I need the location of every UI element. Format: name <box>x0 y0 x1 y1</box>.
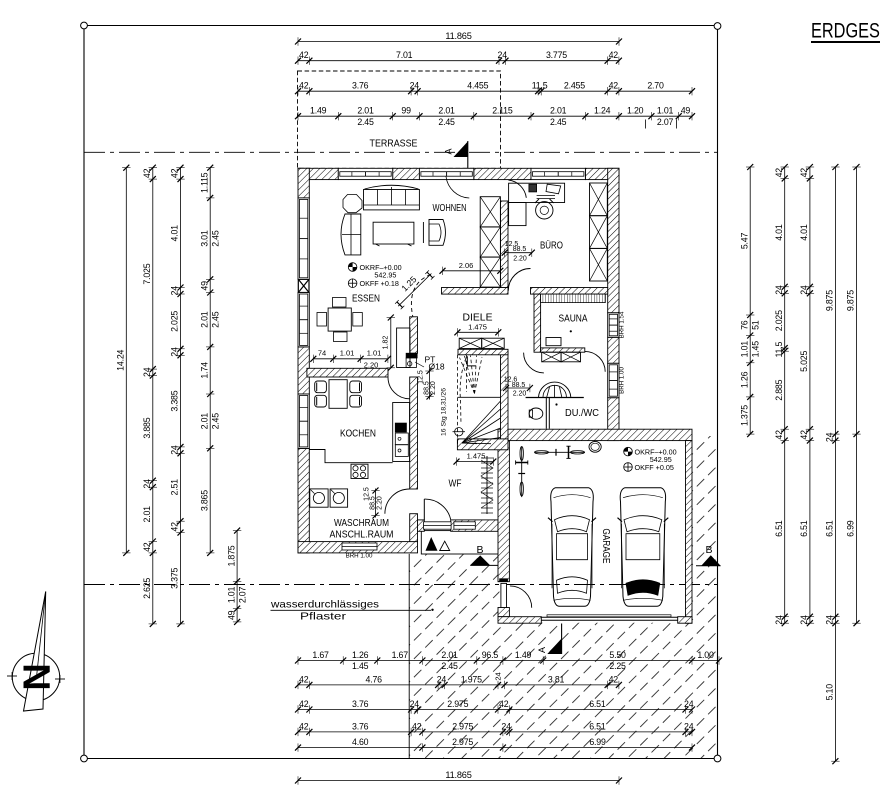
svg-text:42: 42 <box>799 168 809 178</box>
svg-text:BÜRO: BÜRO <box>540 240 563 252</box>
svg-text:2.20: 2.20 <box>364 360 379 369</box>
dim chain right R3 <box>799 164 814 626</box>
axis line south (dash-dot) <box>84 584 718 586</box>
window north 3 (Buero) <box>531 168 585 179</box>
dim chain bottom b5 <box>295 737 695 752</box>
svg-text:1.01: 1.01 <box>739 341 749 358</box>
entrance door threshold <box>424 522 476 529</box>
boundary corner marker bottom-right <box>714 755 721 762</box>
svg-text:6.99: 6.99 <box>589 737 606 747</box>
section marker B left <box>470 544 500 565</box>
svg-text:11,5: 11,5 <box>532 81 548 91</box>
svg-text:2.115: 2.115 <box>492 106 513 116</box>
diagonal dim 1.25 (Essen opening) <box>395 270 434 309</box>
svg-text:5.10: 5.10 <box>825 684 835 701</box>
svg-text:42: 42 <box>299 81 309 91</box>
2.07 label bars <box>645 120 647 129</box>
svg-text:6.51: 6.51 <box>589 721 606 731</box>
cabinet lobby with X <box>542 352 581 362</box>
svg-text:B: B <box>476 544 483 556</box>
window west 1 <box>298 198 309 279</box>
svg-text:42: 42 <box>299 50 309 60</box>
dim 12.6/88.5/2.20 DU/WC door <box>503 377 533 398</box>
svg-text:42: 42 <box>299 721 309 731</box>
svg-text:9.875: 9.875 <box>846 290 856 311</box>
svg-text:5.025: 5.025 <box>799 350 809 371</box>
svg-text:1.875: 1.875 <box>226 545 236 566</box>
dim 12.5/88.5/2.20 near PT <box>418 368 438 400</box>
svg-text:2.455: 2.455 <box>564 81 585 91</box>
svg-text:1.67: 1.67 <box>392 650 409 660</box>
svg-text:24: 24 <box>498 50 508 60</box>
svg-text:3.01: 3.01 <box>199 230 209 247</box>
dim chain left L3 <box>170 165 185 627</box>
svg-text:3.76: 3.76 <box>352 721 369 731</box>
svg-text:1.45: 1.45 <box>352 661 369 671</box>
section marker A top <box>444 141 468 168</box>
svg-text:SAUNA: SAUNA <box>559 313 588 325</box>
window west 3 <box>298 394 309 448</box>
sideboard Essen <box>397 328 410 368</box>
svg-text:GARAGE: GARAGE <box>600 529 612 564</box>
interior wall V1 (kitchen/Diele) <box>410 317 418 353</box>
exterior wall south (Waschraum) <box>298 542 418 553</box>
svg-text:7.025: 7.025 <box>142 263 152 284</box>
interior wall sauna north (H2) <box>531 288 608 295</box>
svg-text:2.01: 2.01 <box>142 506 152 523</box>
door kitchen <box>388 377 410 399</box>
west wall pier with X <box>298 279 309 292</box>
svg-text:49: 49 <box>199 281 209 291</box>
svg-text:1.45: 1.45 <box>751 341 761 358</box>
dim chain right R5 <box>846 164 861 626</box>
svg-text:1.01: 1.01 <box>657 106 674 116</box>
door Essen-Diele dashed swing <box>411 275 430 318</box>
svg-text:2.01: 2.01 <box>199 413 209 430</box>
svg-text:5.50: 5.50 <box>609 650 626 660</box>
dim chain left L1 14.24 <box>116 165 131 556</box>
svg-text:BRH 1.54: BRH 1.54 <box>619 311 626 338</box>
svg-text:ANSCHL.RAUM: ANSCHL.RAUM <box>330 529 394 541</box>
svg-text:2.01: 2.01 <box>441 650 458 660</box>
svg-text:88.5: 88.5 <box>370 496 377 510</box>
dim 2.06 <box>440 261 504 275</box>
svg-text:1.82: 1.82 <box>382 336 389 350</box>
sofa <box>364 185 420 210</box>
driveway edge line <box>408 554 410 758</box>
svg-text:6.51: 6.51 <box>589 699 606 709</box>
svg-text:WF: WF <box>449 478 462 490</box>
svg-text:42: 42 <box>142 542 152 552</box>
svg-text:2.01: 2.01 <box>438 106 455 116</box>
svg-text:42: 42 <box>412 721 422 731</box>
svg-text:WASCHRAUM: WASCHRAUM <box>334 517 389 529</box>
svg-text:ERDGESCHOSS: ERDGESCHOSS <box>811 19 880 43</box>
svg-text:3.76: 3.76 <box>352 81 369 91</box>
svg-text:1.49: 1.49 <box>310 106 327 116</box>
svg-text:14.24: 14.24 <box>116 349 126 370</box>
svg-text:2.01: 2.01 <box>550 106 567 116</box>
svg-text:6.51: 6.51 <box>799 520 809 537</box>
svg-text:42: 42 <box>170 522 180 532</box>
entrance porch slab <box>421 531 501 554</box>
svg-text:1.00: 1.00 <box>697 650 714 660</box>
interior wall H1 (kitchen north) <box>307 368 388 377</box>
svg-text:2.20: 2.20 <box>513 391 527 398</box>
dim 1.475 Diele <box>454 322 501 336</box>
svg-text:1.01: 1.01 <box>340 348 355 357</box>
terrace door swing <box>446 177 469 199</box>
svg-text:6.51: 6.51 <box>825 520 835 537</box>
svg-text:24: 24 <box>170 445 180 455</box>
svg-text:42: 42 <box>170 168 180 178</box>
svg-text:2.975: 2.975 <box>452 721 473 731</box>
elevation marker OKRF garage <box>624 447 677 464</box>
svg-text:74: 74 <box>318 348 326 357</box>
svg-text:7.01: 7.01 <box>396 50 413 60</box>
stair shaft top wall <box>458 349 508 355</box>
svg-text:6.99: 6.99 <box>846 520 856 537</box>
svg-text:BRH 1.00: BRH 1.00 <box>346 553 373 560</box>
svg-text:42: 42 <box>799 430 809 440</box>
bicycle vertical <box>516 446 528 497</box>
door sauna <box>585 351 605 371</box>
svg-text:4.01: 4.01 <box>799 224 809 241</box>
svg-text:24: 24 <box>825 432 835 442</box>
point DU/WC <box>555 403 557 405</box>
svg-text:542.95: 542.95 <box>374 270 396 279</box>
round bin <box>589 441 601 452</box>
spiral stair <box>453 355 501 445</box>
interior wall H3 (Wohnen south) <box>442 288 509 295</box>
svg-text:2.885: 2.885 <box>774 379 784 400</box>
svg-text:42: 42 <box>299 699 309 709</box>
section marker A bottom <box>537 624 562 655</box>
dining table Essen <box>317 298 362 342</box>
dim chain top total 11.865 <box>295 31 622 46</box>
door lobby (Diele side) <box>524 353 544 373</box>
sauna oven <box>546 338 561 346</box>
svg-text:2.07: 2.07 <box>657 117 674 127</box>
svg-text:24: 24 <box>170 286 180 296</box>
svg-text:42: 42 <box>609 50 619 60</box>
elevation marker OKFF Wohnen <box>348 279 399 288</box>
svg-text:42: 42 <box>142 168 152 178</box>
svg-text:1.67: 1.67 <box>312 650 329 660</box>
svg-text:2.45: 2.45 <box>438 117 455 127</box>
window east 2 (DU/WC) <box>608 363 619 397</box>
svg-text:16 Stg 18,31/26: 16 Stg 18,31/26 <box>441 388 448 436</box>
svg-text:2.20: 2.20 <box>430 381 437 395</box>
svg-text:1.74: 1.74 <box>199 362 209 379</box>
svg-text:76: 76 <box>739 320 749 330</box>
svg-text:WOHNEN: WOHNEN <box>433 202 467 214</box>
exterior wall north <box>298 168 338 179</box>
interior wall sauna south <box>541 348 585 352</box>
entrance door WF <box>424 499 450 520</box>
dim chain left L2 <box>142 165 157 627</box>
dim chain right R4 <box>825 164 840 764</box>
svg-text:11.865: 11.865 <box>445 770 471 780</box>
svg-text:B: B <box>705 544 712 556</box>
boundary corner marker top-right <box>714 23 721 30</box>
svg-text:2.625: 2.625 <box>142 578 152 599</box>
svg-text:ESSEN: ESSEN <box>352 293 380 305</box>
axis line north (dash-dot) <box>84 151 718 153</box>
svg-text:2.45: 2.45 <box>211 230 221 247</box>
dim chain bottom total 11.865 <box>295 770 622 785</box>
dim 1.82 vertical <box>382 315 395 371</box>
svg-text:1.20: 1.20 <box>627 106 644 116</box>
svg-text:3.81: 3.81 <box>548 674 565 684</box>
svg-text:2.025: 2.025 <box>170 311 180 332</box>
svg-text:1.475: 1.475 <box>467 452 486 461</box>
svg-text:TERRASSE: TERRASSE <box>370 138 418 150</box>
svg-text:2.06: 2.06 <box>459 261 474 270</box>
dim chain bottom b3 <box>295 699 695 714</box>
interior wall V3 (Wohnen/Buero) <box>501 201 509 288</box>
door Wohnen-Buero <box>508 180 526 198</box>
shower <box>539 382 571 398</box>
property boundary <box>84 26 718 759</box>
kitchen counter right with sink and hob <box>393 403 410 462</box>
stair/DU-WC wall east <box>501 351 509 441</box>
exterior wall west <box>298 168 309 198</box>
leader and label PT d18 <box>415 355 445 372</box>
elevation marker OKFF garage <box>624 463 674 472</box>
svg-text:24: 24 <box>410 699 420 709</box>
svg-text:2.45: 2.45 <box>357 117 374 127</box>
svg-text:9.875: 9.875 <box>825 290 835 311</box>
dim chain left L5 <box>226 528 247 625</box>
WC door leaf <box>546 398 549 429</box>
svg-text:2.45: 2.45 <box>211 311 221 328</box>
svg-text:OKFF +0.18: OKFF +0.18 <box>360 279 399 288</box>
svg-text:88.5: 88.5 <box>512 382 526 389</box>
window east 1 (Sauna) <box>608 313 619 338</box>
svg-text:4.76: 4.76 <box>366 674 383 684</box>
door Diele-Buero <box>508 269 530 291</box>
toilet <box>529 408 543 419</box>
svg-text:4.455: 4.455 <box>467 81 488 91</box>
car 1 (left) <box>548 488 596 607</box>
svg-text:2.70: 2.70 <box>647 81 664 91</box>
svg-text:42: 42 <box>499 699 509 709</box>
window north 2 + terrace door <box>419 168 473 179</box>
svg-text:24: 24 <box>684 721 694 731</box>
bicycle horizontal <box>535 446 586 458</box>
desk <box>509 183 565 225</box>
svg-text:Pflaster: Pflaster <box>300 612 347 623</box>
svg-text:3.385: 3.385 <box>170 390 180 411</box>
armchair left (chaise) <box>341 214 361 255</box>
svg-text:88.5: 88.5 <box>513 246 527 253</box>
office chair <box>535 199 554 219</box>
vanity counter <box>526 397 584 399</box>
svg-text:2.25: 2.25 <box>609 661 626 671</box>
svg-text:3.76: 3.76 <box>352 699 369 709</box>
door WF-Waschraum <box>385 489 410 514</box>
svg-text:24: 24 <box>774 285 784 295</box>
svg-text:1.01: 1.01 <box>226 587 236 604</box>
svg-text:24: 24 <box>799 615 809 625</box>
entrance wall (WF south) <box>418 520 425 531</box>
door jamb cap <box>500 579 508 582</box>
garage wall west <box>498 441 509 582</box>
stair shaft bottom wall <box>457 439 508 450</box>
svg-text:2.20: 2.20 <box>513 256 527 263</box>
armchair right <box>423 220 445 246</box>
svg-text:49: 49 <box>226 610 236 620</box>
svg-text:1.49: 1.49 <box>515 650 532 660</box>
svg-text:42: 42 <box>609 674 619 684</box>
svg-text:99: 99 <box>401 106 411 116</box>
svg-text:24: 24 <box>774 615 784 625</box>
wardrobe Diele with X <box>459 338 504 348</box>
terrace dashed outline <box>298 71 501 168</box>
wall south of DU/WC and garage top <box>498 429 692 440</box>
svg-text:24: 24 <box>170 347 180 357</box>
kitchen counter bottom with cooktop <box>309 450 392 479</box>
garage wall south-left <box>498 617 541 624</box>
title ERDGESCHOSS <box>811 19 880 43</box>
dim 1.475 WF <box>454 452 497 466</box>
svg-text:BRH 1.00: BRH 1.00 <box>619 367 626 394</box>
svg-text:wasserdurchlässiges: wasserdurchlässiges <box>270 600 379 611</box>
svg-text:2.45: 2.45 <box>441 661 458 671</box>
coffee table <box>373 222 414 246</box>
car 2 (right) <box>618 488 669 607</box>
dim chain right R1 <box>739 164 760 437</box>
shelf Buero east with X <box>590 183 608 281</box>
garage wall south-right <box>678 617 692 624</box>
svg-text:1.975: 1.975 <box>461 674 482 684</box>
dim chain top row2 <box>295 50 622 65</box>
svg-text:6.51: 6.51 <box>774 520 784 537</box>
svg-text:42: 42 <box>299 674 309 684</box>
svg-text:24: 24 <box>684 699 694 709</box>
exterior wall east <box>608 168 619 312</box>
svg-text:3.375: 3.375 <box>170 567 180 588</box>
svg-text:1.475: 1.475 <box>468 322 487 331</box>
label wasserdurchlaessiges Pflaster with leader <box>270 600 434 623</box>
svg-text:1.26: 1.26 <box>739 371 749 388</box>
svg-text:24: 24 <box>410 81 420 91</box>
svg-text:49: 49 <box>681 106 691 116</box>
svg-text:2.45: 2.45 <box>550 117 567 127</box>
boundary corner marker top-left <box>81 22 88 29</box>
dim 12.5/88.5/2.20 kitchen door vertical <box>364 487 384 518</box>
dim chain right R2 <box>774 164 789 626</box>
svg-text:2.07: 2.07 <box>238 587 248 604</box>
dim chain top row4 <box>295 106 695 127</box>
svg-text:1.375: 1.375 <box>739 405 749 426</box>
svg-text:4.01: 4.01 <box>170 225 180 242</box>
svg-text:3.775: 3.775 <box>546 50 567 60</box>
svg-text:1.26: 1.26 <box>352 650 369 660</box>
svg-text:N: N <box>15 663 57 690</box>
boundary corner marker bottom-left <box>81 755 88 762</box>
svg-text:11.865: 11.865 <box>445 31 471 41</box>
dim chain left L4 <box>199 165 220 556</box>
garage door sill <box>541 615 677 621</box>
radiator WF <box>481 456 493 514</box>
sauna bench lining (comb) <box>541 294 606 303</box>
dim chain top row3 <box>295 81 695 96</box>
svg-text:2.20: 2.20 <box>377 496 384 510</box>
svg-text:2.45: 2.45 <box>211 413 221 430</box>
washing machines <box>310 489 348 507</box>
window west 2 <box>298 293 309 347</box>
svg-text:DU./WC: DU./WC <box>565 407 599 419</box>
svg-text:42: 42 <box>774 430 784 440</box>
kitchen table <box>315 380 362 409</box>
svg-text:24: 24 <box>501 721 511 731</box>
svg-text:2.51: 2.51 <box>170 479 180 496</box>
svg-text:2.01: 2.01 <box>199 311 209 328</box>
svg-text:24: 24 <box>799 285 809 295</box>
svg-text:2.975: 2.975 <box>447 699 468 709</box>
svg-text:2.025: 2.025 <box>774 310 784 331</box>
dim chain bottom b4 <box>295 721 695 736</box>
svg-text:A: A <box>537 647 547 653</box>
svg-text:1.115: 1.115 <box>199 172 209 193</box>
elevation marker OKRF Wohnen <box>348 263 401 280</box>
svg-text:3.865: 3.865 <box>199 490 209 511</box>
svg-text:4.01: 4.01 <box>774 224 784 241</box>
svg-text:OKFF +0.05: OKFF +0.05 <box>635 463 674 472</box>
sauna point <box>570 330 572 332</box>
door WF-garage leaf and swing <box>501 583 532 607</box>
svg-text:2.975: 2.975 <box>452 737 473 747</box>
svg-text:24: 24 <box>825 615 835 625</box>
window north 1 (Essen/Wohnen) <box>338 168 392 179</box>
svg-text:42: 42 <box>774 168 784 178</box>
svg-text:24: 24 <box>494 672 503 680</box>
svg-text:2.01: 2.01 <box>357 106 374 116</box>
svg-text:A: A <box>444 148 454 154</box>
svg-text:24: 24 <box>142 367 152 377</box>
svg-text:42: 42 <box>609 81 619 91</box>
svg-text:1.24: 1.24 <box>594 106 611 116</box>
dim chain bottom b1 <box>295 650 722 671</box>
svg-text:5.47: 5.47 <box>739 233 749 250</box>
interior wall sauna west <box>534 294 541 352</box>
post PT block <box>406 353 417 367</box>
svg-text:KOCHEN: KOCHEN <box>340 428 376 440</box>
svg-text:4.60: 4.60 <box>352 737 369 747</box>
dim chain bottom b2 <box>295 674 622 689</box>
south wall vent window <box>342 543 377 550</box>
svg-text:51: 51 <box>751 320 761 330</box>
dim 74/1.01/1.01 kitchen opening <box>310 348 391 369</box>
TV cabinet with X <box>480 197 500 287</box>
north arrow <box>7 592 65 712</box>
garage wall east <box>686 441 693 624</box>
svg-text:24: 24 <box>142 479 152 489</box>
section marker B right <box>696 544 721 566</box>
svg-text:11,5: 11,5 <box>774 342 784 358</box>
svg-text:96.5: 96.5 <box>482 650 499 660</box>
dim 12.5/88.5/2.20 Buero door <box>502 241 535 263</box>
svg-text:3.885: 3.885 <box>142 417 152 438</box>
plant (octagon) <box>343 195 362 213</box>
entry steps triangles <box>426 537 450 551</box>
svg-text:1.01: 1.01 <box>367 348 382 357</box>
svg-text:24: 24 <box>437 674 447 684</box>
